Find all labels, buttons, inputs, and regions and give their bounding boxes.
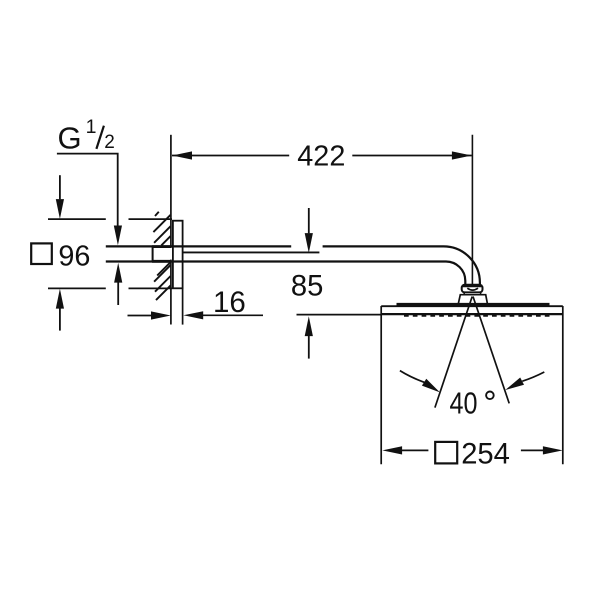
extension line from plate bottom to 85 arrow bbox=[297, 314, 382, 316]
label G 1/2 bbox=[58, 116, 115, 156]
svg-text:16: 16 bbox=[213, 286, 246, 319]
svg-text:96: 96 bbox=[58, 240, 90, 272]
dimension square-96 arrows bbox=[56, 175, 64, 330]
head plate bottom edge bbox=[381, 313, 563, 315]
joint cone bbox=[458, 295, 488, 305]
arm thick wall-section bottom bbox=[152, 260, 172, 263]
spray nozzles dashed bbox=[404, 315, 551, 317]
head plate left cap + 254 extension bbox=[380, 306, 382, 464]
dimension square-96 extension lines bbox=[48, 219, 172, 288]
svg-text:254: 254 bbox=[461, 438, 510, 470]
angle arc arrow right bbox=[505, 372, 544, 390]
svg-text:85: 85 bbox=[291, 270, 323, 302]
flange (escutcheon) bbox=[173, 221, 183, 325]
ball joint nut bbox=[462, 285, 483, 293]
head plate right cap + 254 extension bbox=[562, 306, 564, 464]
dimension 85 bbox=[291, 208, 323, 359]
angle arc arrow left bbox=[400, 371, 440, 393]
svg-text:1: 1 bbox=[86, 116, 97, 138]
text square 96 bbox=[31, 240, 90, 272]
ball silhouette arc bbox=[467, 288, 478, 290]
leader arrow down to pipe top bbox=[114, 226, 122, 246]
dimension 422 bbox=[172, 141, 472, 173]
shower arm top edge (with gap for 85 arrow) bbox=[106, 246, 480, 284]
arm thick wall-section top bbox=[152, 245, 172, 248]
head plate top edge bbox=[381, 305, 563, 307]
svg-text:40: 40 bbox=[450, 386, 478, 421]
text 40deg bbox=[450, 386, 494, 421]
wall hatching bbox=[153, 212, 170, 300]
svg-text:422: 422 bbox=[297, 141, 345, 173]
wall line (also 422 left extension), gap at pipe bbox=[170, 135, 172, 325]
extension line right (head centerline) bbox=[471, 135, 473, 285]
head plate top thick band bbox=[397, 303, 550, 306]
leader line G 1/2 bbox=[57, 154, 118, 226]
joint collar bbox=[464, 293, 480, 295]
svg-text:2: 2 bbox=[104, 132, 115, 153]
spray angle lines 40deg bbox=[435, 297, 509, 408]
shower arm bottom edge bbox=[106, 262, 466, 285]
dimension 16 bbox=[128, 286, 264, 320]
dimension 254 bbox=[382, 438, 562, 470]
arm joint divider at wall bbox=[152, 246, 154, 261]
nut top bar bbox=[462, 285, 482, 288]
svg-text:G: G bbox=[58, 120, 82, 155]
thread arrow up to pipe bottom bbox=[114, 263, 122, 305]
shower arm centerline stub bbox=[183, 251, 320, 253]
